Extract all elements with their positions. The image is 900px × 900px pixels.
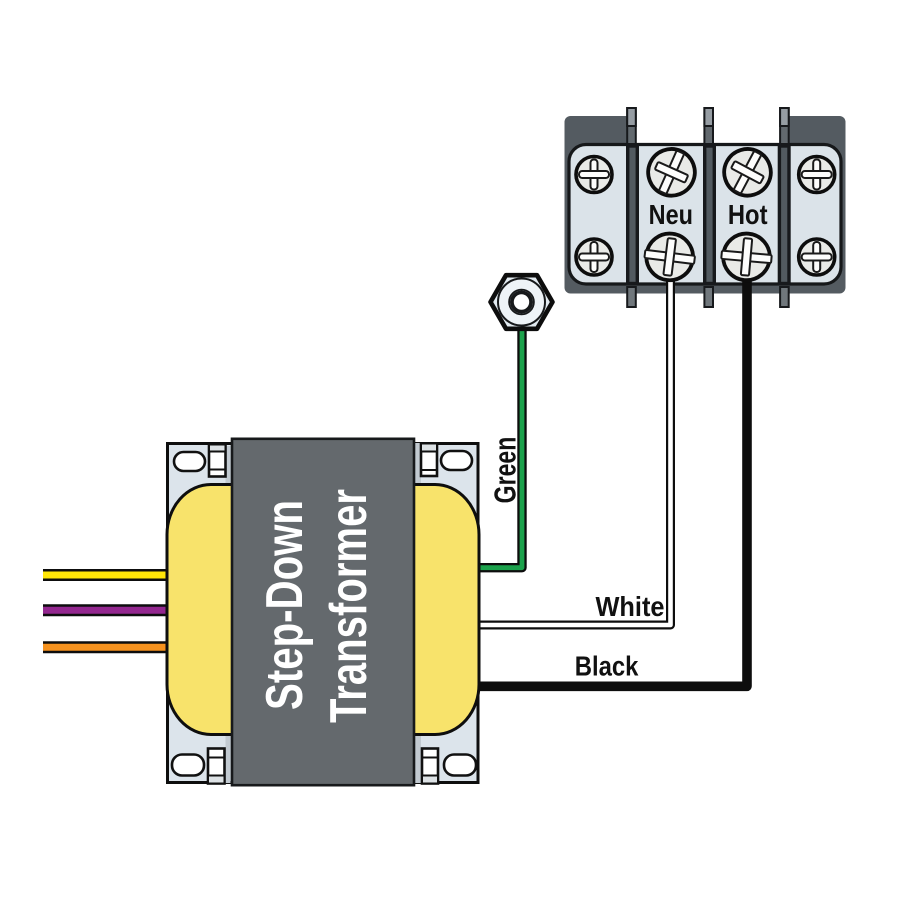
divider tab 3 top [780,108,789,144]
terminal top cutout 1 [636,110,704,143]
bracket flange strip bottom-right [414,734,421,783]
transformer coil body [167,485,479,735]
svg-text:Black: Black [575,651,639,682]
mounting hole bottom-left [172,755,204,776]
transformer core band [232,439,414,785]
terminal screw Neu bottom [642,231,697,283]
wire black (Hot) [478,260,747,686]
bracket clip bottom-right [422,749,438,784]
svg-text:Step-Down: Step-Down [256,500,314,710]
divider channel 3 [779,146,789,284]
bracket clip bottom-left [208,749,225,784]
terminal screw S4 (outer bottom-right) [799,239,835,275]
wire orange (left) [43,641,172,653]
bracket clip top-left [209,445,226,477]
transformer T1 bracket plate [168,444,479,783]
terminal screw S2 (outer bottom-left) [576,239,612,275]
bracket clip top-right [421,444,437,477]
svg-text:Green: Green [488,437,523,504]
svg-text:Hot: Hot [728,199,768,230]
terminal screw Neu top [641,142,703,204]
divider channel 1 [628,146,638,284]
ground hex nut [491,275,553,329]
terminal screw S1 (outer top-left) [576,157,612,193]
bracket flange strip top-right [414,443,421,484]
mounting hole top-right [441,451,472,470]
svg-text:Neu: Neu [649,199,693,230]
divider tab 2 top [704,108,713,144]
divider tab 1 bottom [627,287,636,307]
mounting hole bottom-right [444,755,476,776]
wire green (ground) [478,300,522,568]
terminal block TB1 backing [565,116,846,294]
terminal top cutout 2 [714,110,781,143]
wire purple (left) [43,604,172,616]
divider tab 1 top [627,108,636,144]
terminal screw Hot bottom [720,232,774,283]
divider channel 2 [705,146,715,284]
wire yellow (left) [43,569,172,581]
terminal screw S3 (outer top-right) [799,157,835,193]
mounting hole top-left [174,452,205,471]
terminal screw Hot top [716,141,779,204]
svg-text:White: White [596,591,665,622]
divider tab 2 bottom [704,287,713,307]
bracket flange strip top-left [226,446,231,484]
divider tab 3 bottom [780,287,789,307]
terminal body [569,145,841,285]
bracket flange strip bottom-left [226,734,231,783]
wire white (Neu) [478,260,671,625]
svg-text:Transformer: Transformer [320,489,378,723]
